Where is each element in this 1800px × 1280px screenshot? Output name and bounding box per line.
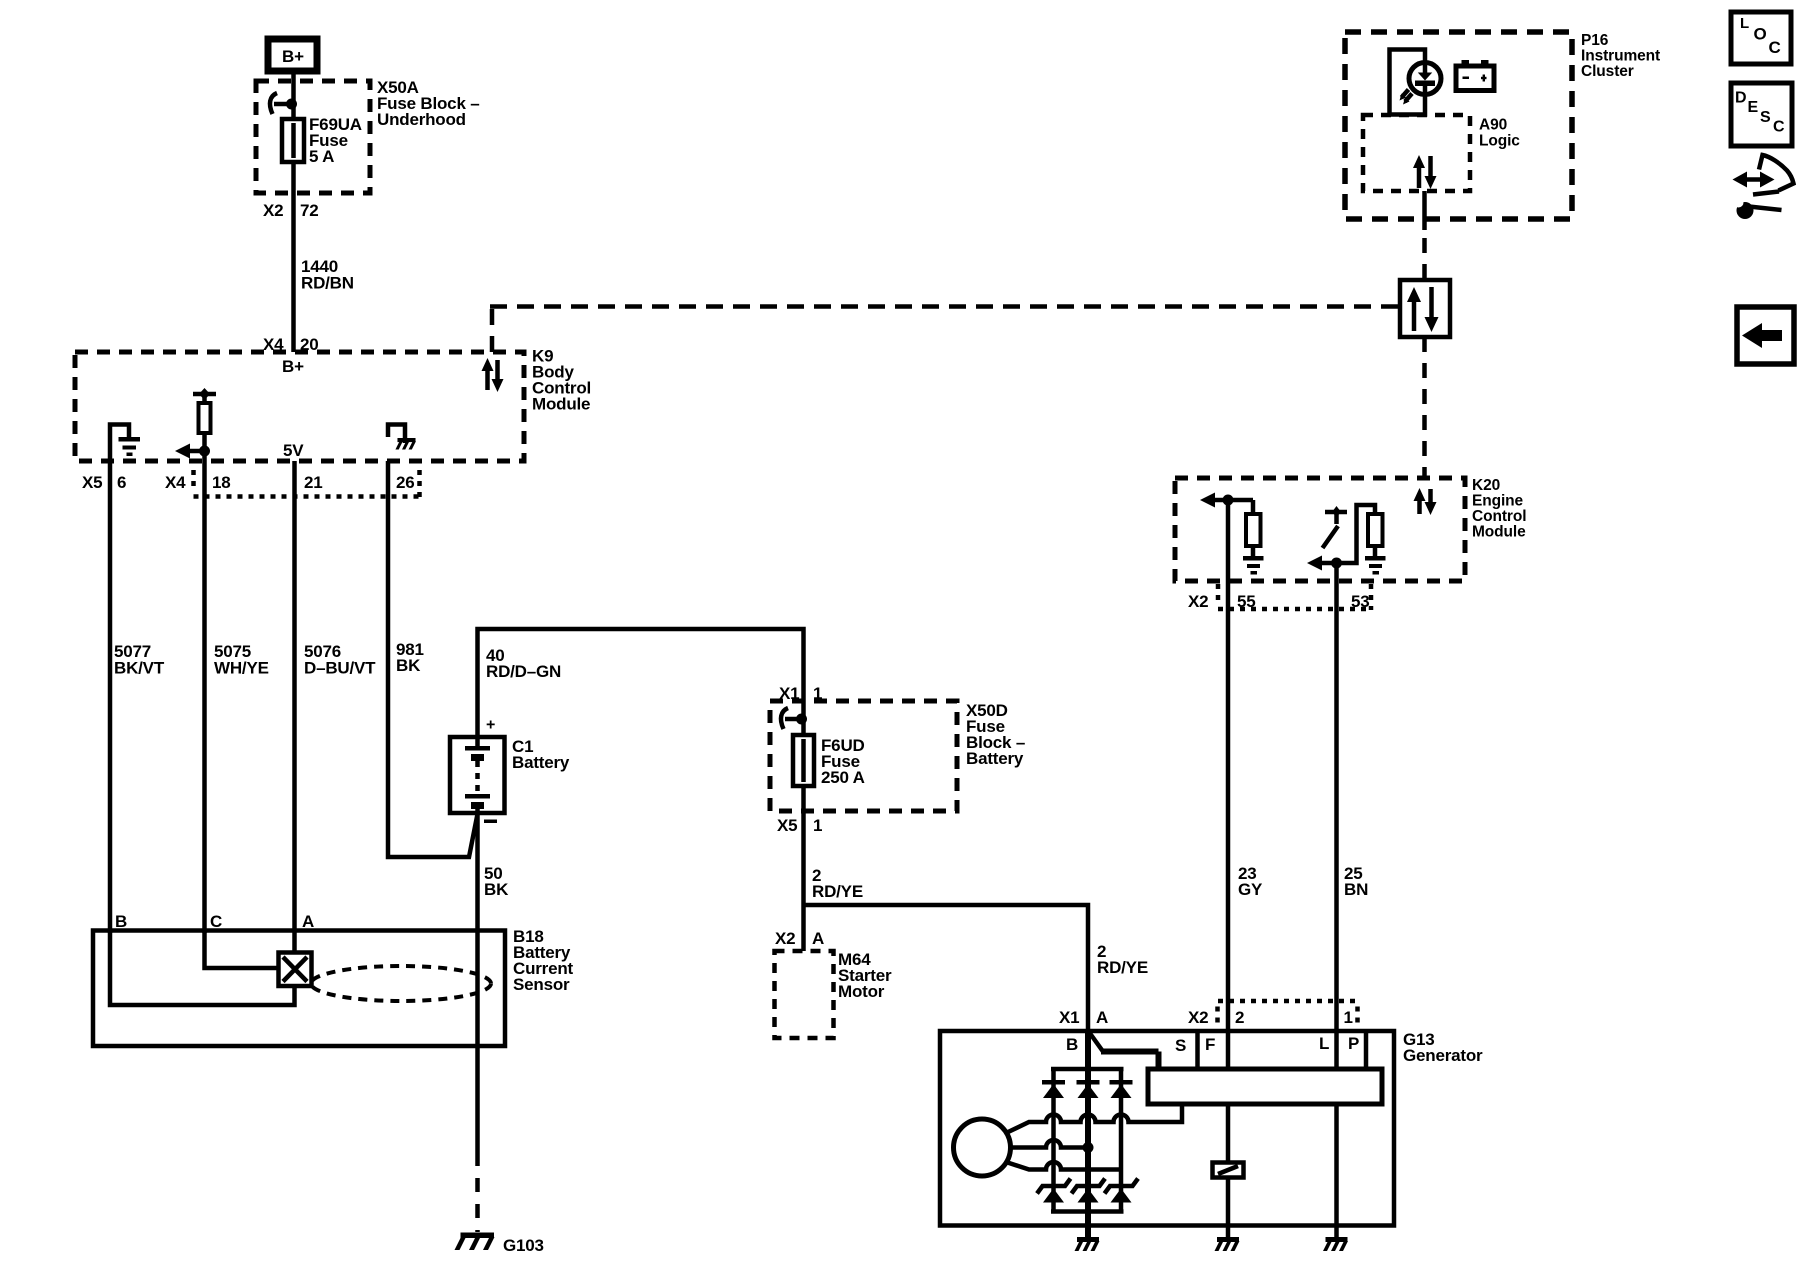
svg-text:X1: X1 bbox=[1059, 1008, 1079, 1027]
connector terminal hook X50D bbox=[781, 708, 807, 729]
svg-text:Battery: Battery bbox=[512, 753, 570, 772]
K9 Body Control Module dashed box bbox=[75, 352, 524, 461]
svg-text:Cluster: Cluster bbox=[1581, 63, 1634, 80]
K20 right branch wire to resistor bbox=[1337, 505, 1376, 563]
svg-text:F: F bbox=[1205, 1035, 1215, 1054]
svg-text:Engine: Engine bbox=[1472, 493, 1524, 510]
generator ground F bbox=[1215, 1237, 1240, 1251]
wire fuse to K9 pin X4-20 bbox=[291, 187, 296, 352]
svg-text:D–BU/VT: D–BU/VT bbox=[304, 659, 376, 678]
chassis ground symbol in K9 bbox=[388, 425, 416, 450]
wire label 2 RD/YE (starter) bbox=[812, 866, 863, 901]
pin row labels K9: X5 6 X4 18 21 26 bbox=[82, 473, 415, 492]
K20 switch blade bbox=[1323, 526, 1339, 548]
stator phase winding top bbox=[1006, 1104, 1182, 1133]
svg-text:5 A: 5 A bbox=[309, 147, 334, 166]
svg-text:L: L bbox=[1319, 1034, 1329, 1053]
data link connector box bbox=[1400, 280, 1450, 337]
generator field element bbox=[1213, 1163, 1244, 1178]
generator ground B bbox=[1075, 1237, 1100, 1251]
telltale loop rectangle bbox=[1390, 50, 1426, 115]
svg-text:1: 1 bbox=[1344, 1008, 1353, 1027]
wire label 23 GY bbox=[1238, 864, 1263, 899]
wire label 5076 D-BU/VT bbox=[304, 642, 376, 678]
K20 left input arrow bbox=[1200, 493, 1253, 508]
icon DESC box bbox=[1731, 83, 1792, 146]
svg-text:G103: G103 bbox=[503, 1236, 544, 1255]
label B18 Battery Current Sensor bbox=[513, 927, 574, 994]
wire branch to generator bbox=[804, 905, 1089, 1031]
svg-text:A90: A90 bbox=[1479, 117, 1507, 134]
label X50D Fuse Block Battery bbox=[966, 701, 1025, 768]
svg-text:X4: X4 bbox=[165, 473, 186, 492]
wire 2 RD/YE fuse to starter and generator bbox=[801, 811, 806, 951]
svg-text:B: B bbox=[1066, 1035, 1078, 1054]
wire label 5077 BK/VT bbox=[114, 642, 165, 678]
wire label 50 BK bbox=[484, 864, 509, 899]
svg-text:WH/YE: WH/YE bbox=[214, 659, 269, 678]
pin labels B C A above B18 bbox=[115, 912, 314, 931]
svg-text:A: A bbox=[812, 929, 824, 948]
svg-text:L: L bbox=[1740, 15, 1749, 32]
ground symbol in K9 (signal ground) bbox=[110, 425, 140, 457]
logic module A90 dashed box bbox=[1363, 115, 1470, 191]
fuse F6UD bbox=[793, 701, 814, 811]
wire K9 pin18 to B18 pin C bbox=[202, 461, 207, 933]
svg-text:X2: X2 bbox=[1188, 592, 1208, 611]
K20 left output arrow (pin 53) bbox=[1307, 556, 1342, 571]
connector X2 dotted outline under K20 bbox=[1218, 584, 1371, 610]
svg-text:18: 18 bbox=[212, 473, 231, 492]
svg-text:6: 6 bbox=[117, 473, 126, 492]
generator S internal line bbox=[1195, 1031, 1200, 1069]
svg-text:K20: K20 bbox=[1472, 477, 1500, 494]
B+ terminal box bbox=[268, 39, 317, 71]
svg-text:S: S bbox=[1175, 1036, 1186, 1055]
svg-text:1: 1 bbox=[813, 816, 822, 835]
dashed data link DLC to K20 bbox=[1422, 337, 1427, 478]
wire label 5075 WH/YE bbox=[214, 642, 269, 678]
pin label X5 1 (fuse block bottom) bbox=[777, 816, 822, 835]
pin label X2 72 bbox=[263, 201, 319, 220]
data link double arrow in A90 bbox=[1413, 155, 1437, 189]
pin label X1 1 (fuse block battery) bbox=[779, 684, 822, 703]
svg-text:C: C bbox=[1769, 38, 1781, 57]
starter motor M64 dashed box bbox=[775, 951, 834, 1038]
svg-text:X1: X1 bbox=[779, 684, 799, 703]
generator ground L bbox=[1323, 1237, 1348, 1251]
K20 right signal ground bbox=[1365, 546, 1386, 575]
wire label 2 RD/YE (generator) bbox=[1097, 942, 1148, 977]
svg-text:RD/D–GN: RD/D–GN bbox=[486, 662, 561, 681]
fuse block X50A dashed box bbox=[256, 81, 370, 193]
wire A90 to cluster edge bbox=[1422, 191, 1427, 230]
wire 40 RD/D-GN battery to fuse block X50D bbox=[478, 629, 804, 737]
icon arrows and wrench bbox=[1733, 155, 1794, 219]
generator X2 connector dotted outline bbox=[1218, 1001, 1359, 1026]
K20 right resistor bbox=[1368, 514, 1383, 546]
label C1 Battery bbox=[512, 737, 570, 772]
svg-text:X5: X5 bbox=[777, 816, 797, 835]
svg-text:P16: P16 bbox=[1581, 32, 1609, 49]
K20 left pull-up resistor bbox=[1246, 500, 1261, 556]
K20 switch contact bbox=[1325, 506, 1347, 524]
wire label 25 BN bbox=[1344, 864, 1368, 899]
svg-text:250 A: 250 A bbox=[821, 768, 865, 787]
ground G103 bbox=[455, 1233, 495, 1251]
generator B node link to regulator bbox=[1089, 1032, 1159, 1069]
svg-text:B: B bbox=[115, 912, 127, 931]
svg-text:A: A bbox=[1096, 1008, 1108, 1027]
rectifier bottom avalanche diodes bbox=[1037, 1179, 1138, 1203]
wire K9 pin6 to B18 pin B bbox=[108, 437, 113, 933]
signal output arrow in K9 bbox=[175, 444, 210, 459]
svg-text:RD/BN: RD/BN bbox=[301, 274, 354, 293]
svg-text:Battery: Battery bbox=[966, 749, 1024, 768]
K20 left signal ground bbox=[1243, 556, 1264, 575]
svg-text:Motor: Motor bbox=[838, 982, 885, 1001]
svg-text:RD/YE: RD/YE bbox=[1097, 958, 1148, 977]
wire 25 BN ECM pin 53 to generator L bbox=[1334, 563, 1339, 1069]
B18 Battery Current Sensor box bbox=[93, 931, 505, 1047]
stator rotor circle bbox=[954, 1119, 1011, 1176]
pin label X2 A (starter) bbox=[775, 929, 824, 948]
label F6UD Fuse 250 A bbox=[821, 736, 865, 787]
label K9 Body Control Module bbox=[532, 347, 591, 414]
rectifier bridge rails bbox=[1051, 1069, 1124, 1212]
label A90 Logic bbox=[1479, 117, 1520, 150]
wire B+ to fuse F69UA bbox=[291, 74, 296, 137]
fuse F69UA bbox=[282, 119, 304, 187]
connector terminal hook X50A bbox=[270, 93, 297, 114]
wire 23 GY ECM pin 55 to generator F bbox=[1226, 500, 1231, 1069]
svg-text:BK/VT: BK/VT bbox=[114, 659, 165, 678]
wire 50 BK battery to G103 bbox=[475, 813, 480, 1232]
stator phase winding bottom bbox=[1006, 1162, 1121, 1170]
pin label X1 A (generator) bbox=[1059, 1008, 1108, 1027]
generator pin letters B S F L P bbox=[1066, 1034, 1359, 1055]
label K20 Engine Control Module bbox=[1472, 477, 1526, 541]
generator G13 box bbox=[940, 1031, 1394, 1226]
stator phase winding middle bbox=[1011, 1140, 1094, 1153]
svg-text:O: O bbox=[1754, 25, 1767, 44]
svg-text:GY: GY bbox=[1238, 880, 1263, 899]
generator B main column bbox=[1085, 1031, 1091, 1237]
battery minus sign bbox=[484, 820, 497, 824]
svg-text:RD/YE: RD/YE bbox=[812, 882, 863, 901]
battery C1 box bbox=[450, 737, 505, 813]
svg-text:5V: 5V bbox=[283, 441, 304, 460]
generator F wire to ground bbox=[1226, 1177, 1231, 1237]
label P16 Instrument Cluster bbox=[1581, 32, 1660, 80]
data link double arrow in K9 bbox=[482, 358, 504, 392]
dashed data link cluster to DLC bbox=[1422, 238, 1427, 280]
generator voltage regulator bbox=[1148, 1069, 1382, 1104]
svg-text:B+: B+ bbox=[282, 357, 304, 376]
icon back arrow box bbox=[1737, 307, 1794, 364]
wire label 40 RD/D-GN bbox=[486, 646, 561, 681]
wire label 981 BK bbox=[396, 640, 424, 675]
battery C1 plates bbox=[465, 737, 490, 813]
icon LOC box bbox=[1731, 12, 1791, 64]
svg-text:2: 2 bbox=[1235, 1008, 1244, 1027]
svg-text:B+: B+ bbox=[282, 47, 304, 66]
connector X4 dotted outline under K9 bbox=[194, 470, 420, 497]
svg-text:+: + bbox=[486, 717, 495, 734]
label G13 Generator bbox=[1403, 1030, 1483, 1065]
svg-text:D: D bbox=[1735, 90, 1747, 107]
svg-text:C: C bbox=[1773, 119, 1785, 136]
svg-text:Module: Module bbox=[1472, 524, 1526, 541]
generator L line below regulator bbox=[1334, 1104, 1339, 1237]
pin labels X2 2 1 (generator top) bbox=[1188, 1008, 1353, 1027]
label F69UA Fuse 5 A bbox=[309, 115, 362, 166]
data link double arrow in K20 bbox=[1414, 488, 1437, 515]
fuse block X50D dashed box bbox=[770, 701, 957, 811]
svg-text:Generator: Generator bbox=[1403, 1046, 1483, 1065]
pin row labels K20: X2 55 53 bbox=[1188, 592, 1370, 611]
wire label 1440 RD/BN bbox=[301, 257, 354, 293]
generator F line below regulator bbox=[1226, 1104, 1231, 1163]
data link arrows in DLC bbox=[1407, 287, 1439, 332]
B18 sensor element (X box) bbox=[279, 953, 312, 987]
generator P internal line bbox=[1364, 1031, 1369, 1069]
svg-text:26: 26 bbox=[396, 473, 415, 492]
wire K9 pin26 to battery negative bbox=[388, 461, 478, 857]
svg-text:Sensor: Sensor bbox=[513, 975, 570, 994]
svg-text:A: A bbox=[302, 912, 314, 931]
svg-text:21: 21 bbox=[304, 473, 323, 492]
label M64 Starter Motor bbox=[838, 950, 892, 1001]
engine control module K20 dashed box bbox=[1175, 478, 1465, 581]
svg-text:Instrument: Instrument bbox=[1581, 48, 1660, 65]
svg-text:C: C bbox=[210, 912, 222, 931]
svg-text:BN: BN bbox=[1344, 880, 1368, 899]
pin label X4 20 bbox=[263, 335, 319, 354]
svg-text:X2: X2 bbox=[775, 929, 795, 948]
B18 internal wires bbox=[110, 931, 295, 1006]
svg-text:X2: X2 bbox=[1188, 1008, 1208, 1027]
svg-text:Module: Module bbox=[532, 395, 590, 414]
svg-text:Underhood: Underhood bbox=[377, 110, 466, 129]
battery telltale icon bbox=[1456, 60, 1494, 91]
B18 clamp dashed ellipse bbox=[311, 966, 491, 1001]
wire K9 pin21 to B18 pin A bbox=[292, 461, 297, 952]
svg-text:S: S bbox=[1760, 109, 1771, 126]
svg-text:X2: X2 bbox=[263, 201, 283, 220]
dashed data link K9 to DLC horizontal bbox=[490, 305, 1400, 353]
svg-text:X5: X5 bbox=[82, 473, 102, 492]
svg-text:Control: Control bbox=[1472, 508, 1526, 525]
sensor supply symbol in K9 (T-bar, resistor) bbox=[193, 388, 216, 461]
charge indicator lamp bbox=[1400, 63, 1442, 105]
svg-text:BK: BK bbox=[396, 656, 421, 675]
instrument cluster P16 dashed box bbox=[1345, 32, 1572, 219]
rectifier top diodes bbox=[1042, 1080, 1133, 1098]
svg-text:Logic: Logic bbox=[1479, 133, 1520, 150]
svg-text:BK: BK bbox=[484, 880, 509, 899]
svg-text:P: P bbox=[1348, 1034, 1359, 1053]
svg-text:72: 72 bbox=[300, 201, 319, 220]
svg-text:E: E bbox=[1748, 99, 1759, 116]
label X50A Fuse Block Underhood bbox=[377, 78, 479, 129]
svg-text:1: 1 bbox=[813, 684, 822, 703]
